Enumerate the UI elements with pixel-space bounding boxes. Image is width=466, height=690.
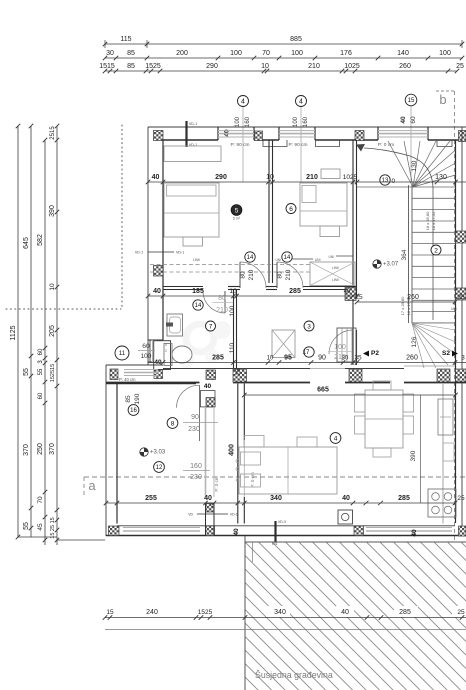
door 14 labels room6 bbox=[282, 252, 292, 262]
svg-text:15: 15 bbox=[106, 609, 114, 616]
svg-text:12: 12 bbox=[156, 465, 163, 471]
living number 4 bbox=[330, 433, 341, 444]
door stairs arc bbox=[329, 330, 353, 354]
svg-text:85: 85 bbox=[127, 50, 135, 57]
svg-text:b: b bbox=[439, 92, 446, 107]
hatch area neighbor building bbox=[245, 542, 466, 690]
svg-text:230: 230 bbox=[188, 426, 200, 433]
door labels 8 bbox=[167, 418, 178, 429]
kitchen appliance 2 bbox=[443, 443, 454, 461]
dining chairs left bbox=[355, 394, 366, 412]
bath sink bbox=[167, 314, 183, 336]
svg-text:40: 40 bbox=[204, 383, 212, 390]
svg-text:400: 400 bbox=[229, 444, 236, 456]
svg-text:100: 100 bbox=[230, 50, 242, 57]
svg-text:285: 285 bbox=[398, 495, 410, 502]
bottom wall dark outer line bbox=[106, 535, 466, 537]
top dimension chain row2 bbox=[105, 57, 463, 59]
level mark hall bbox=[140, 448, 148, 456]
svg-text:25: 25 bbox=[457, 495, 465, 502]
watermark bbox=[178, 321, 231, 368]
leader UNI room6 bbox=[283, 258, 313, 260]
partition room5/room6 bbox=[268, 140, 270, 283]
left wall window 60/100 bbox=[149, 340, 151, 362]
svg-text:85: 85 bbox=[127, 63, 135, 70]
svg-text:110: 110 bbox=[229, 342, 236, 353]
svg-text:30: 30 bbox=[106, 50, 114, 57]
svg-text:115: 115 bbox=[120, 36, 131, 43]
P7 niche box bbox=[200, 391, 215, 407]
room5 bed bbox=[164, 183, 219, 237]
kitchen appliance 1 bbox=[438, 399, 453, 435]
lower-left wall inner bbox=[116, 384, 118, 524]
left wall inner bbox=[162, 140, 164, 340]
axis circle 15 bbox=[410, 106, 412, 182]
svg-text:Šusjedna građevina: Šusjedna građevina bbox=[255, 670, 333, 680]
svg-text:18 x 17,35: 18 x 17,35 bbox=[431, 211, 436, 230]
svg-text:8: 8 bbox=[171, 420, 175, 427]
svg-text:370: 370 bbox=[23, 444, 30, 456]
svg-text:260: 260 bbox=[399, 63, 411, 70]
svg-text:210: 210 bbox=[308, 63, 320, 70]
dining table bbox=[365, 390, 403, 448]
left wall outer bbox=[147, 127, 149, 365]
porch wall stub bottom bbox=[205, 503, 207, 536]
svg-text:60: 60 bbox=[38, 348, 44, 355]
svg-text:85: 85 bbox=[125, 395, 132, 403]
svg-text:P2: P2 bbox=[371, 350, 379, 357]
VD-1 wall stub at top bbox=[185, 121, 187, 147]
bath number 7 bbox=[206, 321, 216, 331]
svg-text:0: 0 bbox=[392, 178, 396, 185]
svg-text:340: 340 bbox=[274, 609, 286, 616]
duct box bath left wall bbox=[154, 341, 171, 370]
door 14 labels room5 bbox=[245, 252, 255, 262]
shaft striped bbox=[337, 328, 356, 362]
door bath arc bbox=[203, 291, 225, 313]
room5 wardrobe bbox=[164, 146, 221, 162]
svg-text:60: 60 bbox=[142, 343, 150, 350]
svg-text:200: 200 bbox=[176, 50, 188, 57]
svg-text:4: 4 bbox=[241, 99, 245, 106]
svg-text:45: 45 bbox=[37, 523, 44, 531]
dotted setback vertical bbox=[121, 125, 123, 308]
VD stub bottom wall bbox=[274, 521, 276, 546]
svg-text:40: 40 bbox=[344, 289, 351, 295]
lower-left wing top band outer bbox=[106, 364, 163, 366]
dim line y296 bbox=[148, 295, 357, 297]
svg-text:10: 10 bbox=[49, 283, 56, 291]
svg-text:15: 15 bbox=[408, 98, 415, 104]
bottom dim line bbox=[105, 617, 466, 619]
svg-text:285: 285 bbox=[289, 288, 301, 295]
hatch border top bbox=[245, 541, 466, 543]
room6 nightstand bottom bbox=[320, 226, 340, 237]
svg-text:290: 290 bbox=[215, 174, 227, 181]
svg-text:80: 80 bbox=[240, 271, 247, 279]
svg-text:190: 190 bbox=[134, 393, 141, 404]
svg-text:1025: 1025 bbox=[344, 63, 360, 70]
partition room6/stairs bbox=[352, 140, 354, 365]
room5 nightstand bbox=[183, 237, 203, 246]
top dimension chain row1 bbox=[105, 43, 462, 45]
svg-text:35: 35 bbox=[354, 355, 362, 362]
wing top band window P40 bbox=[124, 369, 158, 371]
svg-text:285: 285 bbox=[399, 609, 411, 616]
svg-text:390: 390 bbox=[49, 205, 56, 217]
svg-text:7: 7 bbox=[209, 323, 213, 330]
svg-text:18 x 28,80: 18 x 28,80 bbox=[425, 211, 430, 230]
svg-text:3: 3 bbox=[307, 323, 311, 330]
lower-left wing top band inner dark bbox=[106, 383, 196, 385]
checker pillar left wall mid bbox=[154, 266, 164, 277]
svg-text:290: 290 bbox=[206, 63, 218, 70]
door room5 arc bbox=[240, 262, 266, 288]
svg-text:40: 40 bbox=[153, 288, 161, 295]
top dimension chain row3 bbox=[105, 70, 457, 72]
window label 11 bbox=[115, 346, 129, 360]
svg-text:40: 40 bbox=[233, 528, 240, 536]
bath right wall P4 bbox=[233, 289, 235, 368]
checker pillar after w1 bbox=[255, 131, 263, 141]
svg-text:4: 4 bbox=[334, 435, 338, 442]
bottom wall thin inner line bbox=[117, 525, 455, 527]
svg-text:260: 260 bbox=[406, 355, 418, 362]
svg-text:100: 100 bbox=[334, 344, 346, 351]
svg-text:95: 95 bbox=[284, 355, 292, 362]
axis circle 4 bbox=[242, 107, 244, 182]
svg-text:P: 40 cm: P: 40 cm bbox=[119, 377, 136, 382]
door labels 12 bbox=[154, 462, 165, 473]
svg-text:UNI: UNI bbox=[276, 258, 282, 262]
svg-text:LINK: LINK bbox=[193, 258, 201, 262]
svg-text:55: 55 bbox=[23, 522, 30, 530]
svg-text:14: 14 bbox=[284, 255, 291, 261]
svg-text:160: 160 bbox=[190, 463, 202, 470]
svg-text:210: 210 bbox=[216, 307, 228, 314]
axis circle 4b bbox=[300, 107, 302, 182]
svg-text:185: 185 bbox=[192, 288, 204, 295]
svg-text:390: 390 bbox=[410, 450, 417, 461]
svg-text:14: 14 bbox=[247, 255, 254, 261]
svg-text:364: 364 bbox=[401, 249, 408, 260]
svg-text:VD-3: VD-3 bbox=[278, 520, 286, 524]
svg-text:1515: 1515 bbox=[99, 63, 115, 70]
svg-text:100: 100 bbox=[235, 116, 241, 127]
svg-text:100: 100 bbox=[439, 50, 451, 57]
checker pillar top-left corner bbox=[154, 131, 164, 141]
svg-text:40: 40 bbox=[152, 174, 160, 181]
door hall arc (8) bbox=[177, 385, 200, 408]
svg-text:160: 160 bbox=[245, 116, 251, 127]
living bottom dims bbox=[106, 502, 455, 504]
bottom wall windows bbox=[123, 527, 200, 529]
svg-text:P: 0 cm: P: 0 cm bbox=[214, 476, 219, 492]
svg-text:665: 665 bbox=[317, 387, 329, 394]
svg-text:80: 80 bbox=[218, 295, 226, 302]
svg-text:100: 100 bbox=[229, 305, 236, 316]
P7 light wall lines bbox=[205, 407, 207, 497]
sofa body bbox=[239, 447, 337, 494]
middle band dark line segments bbox=[106, 382, 200, 384]
door 14 labels bath bbox=[193, 300, 203, 310]
corridor wall P3 segments bbox=[163, 286, 203, 288]
svg-text:10: 10 bbox=[267, 356, 274, 362]
sofa back cushions bbox=[244, 436, 264, 448]
leader VD-1 left bbox=[148, 251, 174, 253]
svg-text:176: 176 bbox=[340, 50, 352, 57]
middle band checker pillars bbox=[233, 369, 247, 382]
svg-text:+3.07: +3.07 bbox=[383, 262, 399, 268]
hall/living wall P6 bbox=[237, 384, 239, 524]
svg-text:210: 210 bbox=[248, 269, 255, 280]
bottom dim white boxes bbox=[266, 606, 290, 617]
svg-text:+3.03: +3.03 bbox=[150, 450, 166, 456]
left chain 645 bbox=[30, 126, 32, 537]
svg-text:25: 25 bbox=[456, 63, 464, 70]
svg-text:340: 340 bbox=[270, 495, 282, 502]
svg-text:90: 90 bbox=[191, 414, 199, 421]
left chains bottom line bbox=[18, 536, 57, 538]
svg-text:40: 40 bbox=[400, 116, 407, 124]
svg-text:VD: VD bbox=[188, 513, 193, 517]
svg-text:10: 10 bbox=[261, 63, 269, 70]
section line b dashed vertical bbox=[454, 340, 456, 562]
svg-text:VD-1: VD-1 bbox=[135, 251, 143, 255]
dim line y182 bbox=[148, 181, 466, 183]
svg-text:S2: S2 bbox=[442, 350, 450, 357]
svg-text:40: 40 bbox=[342, 495, 350, 502]
svg-text:5 m²: 5 m² bbox=[233, 217, 241, 221]
svg-text:LINK: LINK bbox=[332, 278, 340, 282]
svg-text:a: a bbox=[88, 478, 96, 493]
svg-text:UNI: UNI bbox=[315, 258, 321, 262]
svg-text:285: 285 bbox=[212, 355, 224, 362]
svg-text:25: 25 bbox=[457, 609, 465, 616]
top wall inner line segments bbox=[163, 139, 218, 141]
stair stringer bbox=[408, 185, 410, 323]
bath toilet bbox=[164, 344, 172, 366]
svg-text:2: 2 bbox=[165, 349, 167, 353]
middle band thin top line bbox=[163, 368, 310, 370]
svg-text:240: 240 bbox=[146, 609, 158, 616]
svg-text:370: 370 bbox=[49, 443, 56, 455]
dim 665 bbox=[244, 394, 455, 396]
svg-text:130: 130 bbox=[435, 174, 447, 181]
dining chair top bbox=[373, 381, 391, 390]
svg-text:80: 80 bbox=[277, 271, 284, 279]
window reveal notches bbox=[263, 140, 287, 147]
svg-text:55: 55 bbox=[38, 368, 44, 375]
hall number 3 bbox=[304, 321, 314, 331]
svg-text:100: 100 bbox=[141, 353, 152, 360]
svg-text:2: 2 bbox=[434, 247, 438, 254]
checker pillars right wall bbox=[456, 231, 466, 243]
room6 nightstand top bbox=[321, 169, 340, 179]
svg-text:70: 70 bbox=[262, 50, 270, 57]
svg-text:17 x 28,80: 17 x 28,80 bbox=[400, 296, 405, 315]
checker pillar wing top bbox=[110, 369, 118, 380]
svg-text:11: 11 bbox=[119, 351, 126, 357]
svg-text:25: 25 bbox=[236, 368, 242, 375]
svg-text:10: 10 bbox=[266, 174, 274, 181]
svg-text:2515: 2515 bbox=[50, 126, 56, 140]
svg-text:25: 25 bbox=[457, 294, 465, 301]
checker pillar P3-P2 junction bbox=[345, 288, 356, 301]
left chain inner bbox=[56, 126, 58, 545]
corridor dashed lines bbox=[150, 264, 310, 266]
svg-text:VD-1: VD-1 bbox=[230, 513, 238, 517]
svg-text:100: 100 bbox=[291, 50, 303, 57]
stair treads bbox=[357, 186, 414, 188]
section line a dashed bbox=[84, 476, 466, 478]
svg-text:15 25 15: 15 25 15 bbox=[50, 517, 56, 538]
svg-text:90: 90 bbox=[318, 355, 326, 362]
leader at porch bbox=[197, 513, 228, 515]
checker pillars bottom wall bbox=[109, 526, 120, 536]
room5 number bbox=[231, 205, 242, 216]
svg-text:16: 16 bbox=[130, 408, 137, 414]
svg-text:160: 160 bbox=[303, 116, 309, 127]
door room6 arc bbox=[277, 262, 303, 288]
wood stove bbox=[338, 510, 353, 524]
svg-text:210: 210 bbox=[306, 174, 318, 181]
stair winder fan top bbox=[388, 141, 413, 187]
svg-text:P: 90 cm: P: 90 cm bbox=[231, 142, 250, 148]
right wall lines bbox=[455, 140, 457, 523]
svg-text:10: 10 bbox=[229, 288, 237, 295]
svg-text:LINK: LINK bbox=[332, 266, 340, 270]
svg-text:60: 60 bbox=[410, 116, 417, 124]
svg-text:VD-1: VD-1 bbox=[176, 251, 184, 255]
left chain 1125 bbox=[17, 126, 19, 537]
svg-text:13: 13 bbox=[382, 178, 389, 184]
svg-text:14: 14 bbox=[195, 303, 202, 309]
left chain 582 bbox=[44, 140, 46, 545]
svg-text:40: 40 bbox=[341, 609, 349, 616]
checker pillar top wall mid bbox=[355, 131, 364, 141]
svg-text:210: 210 bbox=[334, 354, 346, 361]
dining chair bottom bbox=[373, 448, 391, 457]
svg-text:152515: 152515 bbox=[50, 364, 56, 382]
hatch border left bbox=[244, 536, 246, 690]
dim line y362 bbox=[148, 362, 466, 364]
bottom second line bbox=[105, 629, 466, 631]
svg-text:230: 230 bbox=[190, 474, 202, 481]
svg-text:205: 205 bbox=[49, 325, 56, 337]
svg-text:582: 582 bbox=[37, 234, 44, 246]
svg-text:UNI: UNI bbox=[451, 307, 457, 311]
room6 bed bbox=[300, 183, 347, 226]
checker pillar top-right corner bbox=[459, 131, 466, 142]
corridor wardrobe X bbox=[310, 262, 355, 286]
top wall outer line bbox=[148, 126, 466, 128]
svg-text:P: 0 cm: P: 0 cm bbox=[250, 472, 255, 488]
svg-text:60: 60 bbox=[38, 392, 44, 399]
svg-text:70: 70 bbox=[37, 496, 44, 504]
lower-left wall outer bbox=[105, 365, 107, 536]
svg-text:126: 126 bbox=[411, 336, 418, 347]
kitchen counter edge bbox=[442, 384, 444, 524]
svg-text:P: 90 cm: P: 90 cm bbox=[289, 142, 308, 148]
svg-text:b01: b01 bbox=[272, 542, 278, 546]
svg-text:5: 5 bbox=[235, 208, 239, 215]
room6 number bbox=[286, 204, 296, 214]
svg-text:250: 250 bbox=[37, 443, 44, 455]
svg-text:4: 4 bbox=[299, 99, 303, 106]
dotted setback horizontal bbox=[6, 308, 121, 310]
svg-text:55: 55 bbox=[23, 368, 30, 376]
svg-text:645: 645 bbox=[23, 237, 30, 249]
svg-text:130: 130 bbox=[411, 160, 418, 171]
hall closet X bbox=[272, 330, 295, 358]
svg-text:UNI: UNI bbox=[329, 255, 335, 259]
window jamb lines top wall bbox=[217, 127, 219, 140]
svg-text:1525: 1525 bbox=[145, 63, 161, 70]
stove bbox=[428, 489, 456, 517]
svg-text:VD-1: VD-1 bbox=[189, 122, 197, 126]
svg-text:1525: 1525 bbox=[198, 609, 213, 616]
svg-text:40: 40 bbox=[411, 529, 418, 537]
svg-text:6: 6 bbox=[289, 206, 293, 213]
svg-text:260: 260 bbox=[407, 294, 419, 301]
svg-text:210: 210 bbox=[285, 269, 292, 280]
svg-text:1125: 1125 bbox=[10, 325, 17, 340]
svg-text:885: 885 bbox=[290, 36, 302, 43]
svg-text:1025: 1025 bbox=[343, 174, 358, 181]
stair walk line top arrow bbox=[432, 187, 434, 320]
svg-text:40: 40 bbox=[204, 495, 212, 502]
svg-text:17: 17 bbox=[303, 350, 310, 356]
checker below duct bbox=[154, 370, 163, 379]
svg-text:140: 140 bbox=[397, 50, 409, 57]
svg-text:255: 255 bbox=[145, 495, 157, 502]
door 17 labels stairs bbox=[304, 347, 314, 357]
stair winder fan bottom bbox=[412, 323, 456, 330]
dining chairs right bbox=[403, 394, 414, 412]
svg-text:100: 100 bbox=[293, 116, 299, 127]
